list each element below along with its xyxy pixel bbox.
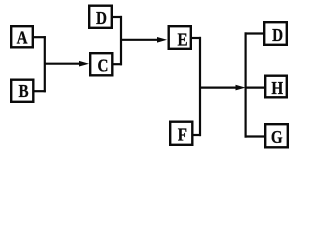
node D (left) — [89, 6, 112, 29]
svg-text:E: E — [178, 29, 188, 50]
svg-text:F: F — [178, 124, 187, 145]
wire arrow EF-bus to DHG bus — [200, 85, 246, 91]
wire arrow AB-bus to C — [45, 61, 89, 67]
node E — [169, 26, 191, 50]
wire D to DC bus — [113, 16, 123, 18]
node B — [11, 80, 33, 102]
svg-text:D: D — [96, 8, 107, 29]
wire vertical DHG bus — [245, 32, 247, 137]
svg-text:H: H — [271, 78, 283, 99]
node H — [265, 76, 287, 99]
wire bus to H — [245, 86, 266, 88]
node C — [90, 53, 112, 75]
svg-text:C: C — [97, 55, 108, 76]
node D (right) — [264, 22, 287, 45]
wire F to EF bus — [193, 134, 201, 136]
wire bus to D (right) — [245, 32, 265, 34]
wire A to junction — [34, 36, 46, 38]
node A — [11, 26, 33, 48]
svg-text:A: A — [17, 27, 28, 48]
svg-text:D: D — [272, 25, 283, 46]
wire bus to G — [245, 135, 266, 137]
wire vertical DC bus — [120, 16, 122, 65]
wire E to EF bus — [192, 37, 202, 39]
wire arrow DC-bus to E — [121, 37, 167, 43]
wire C to DC bus — [113, 63, 122, 65]
node G — [265, 124, 288, 147]
svg-text:G: G — [271, 127, 283, 148]
svg-text:B: B — [18, 81, 28, 102]
wire B to junction — [34, 90, 46, 92]
wire vertical AB bus — [44, 36, 46, 92]
node F — [170, 122, 192, 145]
wire vertical EF bus — [199, 37, 201, 136]
